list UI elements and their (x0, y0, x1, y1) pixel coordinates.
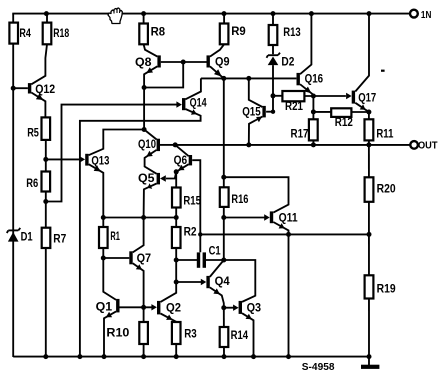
wire Q4 base lead (176, 281, 201, 283)
resistor R11 (365, 119, 374, 140)
wire Q7 collector up to y217 (133, 218, 144, 253)
svg-text:C1: C1 (209, 245, 221, 257)
svg-text:R14: R14 (231, 330, 249, 342)
node IN terminal (410, 9, 431, 21)
wire R21 right to Q17 base (304, 95, 346, 97)
svg-text:R19: R19 (377, 284, 396, 296)
svg-text:R3: R3 (184, 329, 197, 341)
resistor R8 (139, 24, 148, 45)
svg-text:Q7: Q7 (137, 253, 152, 265)
wire R1 column (102, 218, 104, 228)
resistor R10 (139, 322, 148, 344)
wire Q17 collector to rail (355, 14, 369, 92)
transistor Q3 (233, 301, 261, 319)
wire R18 column top (46, 14, 48, 23)
node R6 R7 stub junction (43, 199, 48, 204)
svg-text:S-4958: S-4958 (302, 361, 335, 373)
node Q3 base junction (221, 305, 226, 310)
wire bottom ground rail (13, 356, 369, 358)
wire Q1 base line to Q2 (120, 306, 156, 308)
node R5 R6 base junction (43, 157, 48, 162)
resistor R5 (42, 117, 51, 139)
svg-text:R8: R8 (151, 26, 166, 38)
wire y234 line from Q6 base column (200, 233, 369, 235)
wire Q4 collector (210, 260, 224, 277)
svg-text:Q10: Q10 (138, 139, 156, 151)
node Q4 base junction (174, 280, 179, 285)
svg-text:Q1: Q1 (96, 302, 113, 314)
svg-text:Q8: Q8 (135, 57, 152, 69)
wire C1 left lead (176, 259, 197, 261)
wire Q10 collector diagonal (144, 130, 157, 140)
resistor R3 (172, 322, 181, 344)
wire R5 bottom to node (45, 140, 47, 172)
wire Q17 emitter to R11 (355, 103, 369, 112)
node y217 line dots (101, 215, 227, 220)
resistor R13 (269, 25, 278, 45)
resistor R12 (331, 108, 351, 117)
wire Q12 emitter to R5 top (31, 93, 45, 118)
wire OUT line (175, 144, 410, 146)
svg-text:Q2: Q2 (166, 303, 181, 315)
transistor Q15 (242, 106, 266, 122)
resistor R15 (172, 188, 181, 208)
node R12 left junction (311, 109, 316, 114)
node bottom rail junction dots (43, 354, 371, 359)
svg-text:R6: R6 (26, 178, 38, 190)
wire R12 left lead (313, 111, 331, 113)
wire Q10 base to OUT line start (160, 144, 175, 146)
transistor Q6 (174, 155, 192, 170)
wire R2 column top (175, 218, 177, 228)
wire Q6 collector from OUT node (175, 145, 189, 156)
wire Q15 emitter down to OUT line (249, 117, 263, 145)
svg-text:R20: R20 (377, 183, 396, 195)
resistor R2 (172, 227, 181, 248)
wire Q8 diode tie (144, 62, 183, 88)
wire top supply rail (12, 13, 410, 15)
svg-text:R9: R9 (231, 26, 246, 38)
svg-text:R18: R18 (53, 28, 69, 40)
wire R16 top line to Q11 collector (224, 177, 289, 212)
wire Q13 emitter down to line (89, 164, 104, 217)
wire Q7 base (103, 257, 129, 259)
svg-text:R17: R17 (291, 128, 309, 140)
svg-text:Q11: Q11 (279, 213, 299, 225)
wire R6 bottom to R7 node (45, 192, 47, 228)
resistor R17 (309, 119, 318, 140)
wire Q6 emitter to R15 node (176, 164, 189, 172)
svg-text:Q4: Q4 (215, 276, 231, 288)
transistor Q1 (96, 299, 120, 317)
wire R21 left lead (273, 95, 282, 97)
wire Q14 emitter line to x79 bus (80, 109, 201, 357)
node OUT terminal (410, 139, 438, 151)
wire Q11 emitter down to rail (273, 222, 288, 357)
diode D1 (7, 228, 33, 244)
wire base line y217 from R1 top to R15 (103, 217, 178, 219)
svg-text:Q17: Q17 (358, 93, 376, 105)
wire R18 bottom to Q12 collector (31, 44, 47, 84)
wire y78 line to Q16 base (201, 77, 297, 79)
resistor R1 (99, 227, 108, 248)
wire Q11 base lead from bus (224, 217, 265, 219)
svg-text:R10: R10 (106, 327, 129, 339)
wire Q1 emitter to rail (104, 311, 116, 356)
svg-text:R15: R15 (183, 196, 201, 208)
svg-text:R2: R2 (184, 226, 197, 238)
svg-text:R1: R1 (110, 231, 120, 243)
svg-text:Q3: Q3 (247, 303, 262, 315)
wire Q10 emitter to Q5 collector (145, 150, 157, 174)
transistor Q12 (28, 83, 55, 100)
node x224 bus dots (221, 175, 226, 263)
wire Q8 Q9 base link (161, 61, 207, 63)
wire Q5 emitter down to y217 (144, 184, 157, 218)
node R2 C1 junction (174, 258, 179, 263)
node y78 line dots (221, 76, 251, 81)
transistor Q9 (207, 55, 230, 76)
node Q1 base R10 junction (141, 305, 146, 310)
svg-text:R4: R4 (19, 28, 31, 40)
node Q7 base junction (101, 256, 106, 261)
svg-text:R5: R5 (27, 128, 39, 140)
wire Q12 base from left rail (13, 87, 28, 89)
node y234 right dot (367, 232, 372, 237)
resistor R6 (42, 172, 51, 192)
node hand cursor (108, 8, 122, 24)
svg-text:R12: R12 (335, 117, 353, 129)
resistor R20 (365, 177, 374, 202)
svg-text:1N: 1N (421, 9, 432, 21)
node Q5 Q6 R15 node (174, 169, 179, 174)
svg-text:R11: R11 (376, 128, 393, 140)
wire Q13 base from R5/R6 node (46, 158, 81, 160)
resistor R19 (365, 275, 374, 298)
transistor Q17 (346, 91, 376, 110)
wire left rail vertical (12, 14, 14, 357)
node Q11 emitter line dot (286, 232, 291, 237)
wire Q14 base line to R6 R7 node (46, 105, 178, 202)
wire R11 column to OUT (368, 112, 370, 145)
capacitor C1 (197, 245, 221, 267)
node x273 dots (271, 93, 276, 114)
wire R15 column node to line (175, 172, 177, 218)
wire R10 column (143, 307, 145, 356)
svg-text:R21: R21 (285, 101, 304, 113)
wire x273 bus R13 D2 R21 Q15 (272, 14, 274, 112)
transistor Q7 (129, 251, 151, 269)
svg-text:Q14: Q14 (190, 98, 207, 110)
wire R12 right lead (351, 111, 369, 113)
wire R20 R19 column OUT to ground (368, 145, 370, 365)
wire Q2 collector to R2 bottom (161, 248, 177, 302)
node Q12 base junction (11, 86, 16, 91)
transistor Q14 (176, 98, 207, 115)
svg-text:Q15: Q15 (242, 106, 261, 118)
transistor Q2 (151, 301, 181, 320)
wire Q14 collector to y78 line (185, 78, 201, 99)
wire Q8 emitter bus down to Q10 node (144, 66, 157, 129)
wire x224 bus from y78 to C1 (223, 78, 225, 260)
node top rail junction dots (44, 11, 372, 16)
svg-text:Q9: Q9 (215, 57, 230, 69)
node y234 left junction (198, 232, 202, 236)
node Q17 emitter junction (366, 110, 371, 115)
node Q10 collector node dot (142, 127, 147, 132)
wire Q3 emitter to rail (242, 313, 254, 356)
wire Q2 emitter to R3 (161, 314, 177, 357)
svg-text:OUT: OUT (418, 139, 438, 151)
wire Q9 emitter to bus (210, 66, 224, 78)
wire Q9 collector to R9 (210, 14, 224, 57)
wire Q7 emitter down to Q1 base line (133, 263, 144, 307)
svg-text:D2: D2 (281, 57, 294, 69)
resistor R9 (220, 24, 229, 45)
wire C1 right lead to Q3 collector (206, 260, 255, 302)
wire Q15 collector up to y78 (249, 78, 263, 107)
resistor R4 (9, 23, 18, 44)
svg-text:D1: D1 (21, 232, 33, 244)
wire Q13 collector to Q10 node (89, 130, 144, 156)
transistor Q10 (138, 139, 160, 157)
wire x313 column to OUT (312, 96, 314, 145)
resistor R18 (43, 23, 52, 45)
wire R14 column (223, 308, 225, 357)
resistor R14 (220, 327, 229, 347)
svg-text:R7: R7 (53, 233, 66, 245)
resistor R16 (220, 187, 229, 207)
svg-text:Q6: Q6 (174, 155, 188, 167)
wire Q6 base down to C1 left plate (192, 160, 200, 252)
svg-text:R16: R16 (231, 194, 248, 206)
wire Q3 base lead (224, 307, 234, 309)
resistor R21 (282, 91, 304, 101)
ground (361, 365, 379, 369)
svg-text:Q16: Q16 (305, 74, 324, 86)
node OUT line dots (173, 142, 372, 147)
node base link junction (181, 60, 186, 65)
transistor Q13 (80, 154, 110, 172)
node Q16 emitter junction (311, 94, 316, 99)
wire Q16 collector to rail (300, 14, 311, 75)
transistor Q16 (297, 73, 324, 93)
transistor Q4 (201, 276, 230, 294)
wire R7 bottom to rail (45, 248, 47, 357)
wire Q15 base lead (266, 111, 273, 113)
svg-text:Q12: Q12 (35, 84, 55, 96)
transistor Q5 (138, 173, 166, 189)
resistor R7 (42, 228, 51, 248)
transistor Q8 (135, 55, 161, 73)
svg-text:R13: R13 (283, 27, 301, 39)
svg-text:Q5: Q5 (138, 173, 155, 185)
svg-text:Q13: Q13 (91, 156, 109, 168)
wire Q8 collector to R8 (144, 14, 158, 57)
wire Q5 base to node (166, 172, 176, 179)
wire Q16 emitter to node (300, 84, 313, 96)
node Q8 emitter junction (142, 85, 147, 90)
wire Q4 emitter to Q3 base node (210, 287, 224, 307)
transistor Q11 (264, 211, 298, 228)
node stray mark (381, 70, 385, 72)
wire R1 bottom to Q7 base to Q1 collector (103, 248, 116, 300)
diode D2 (267, 53, 295, 69)
